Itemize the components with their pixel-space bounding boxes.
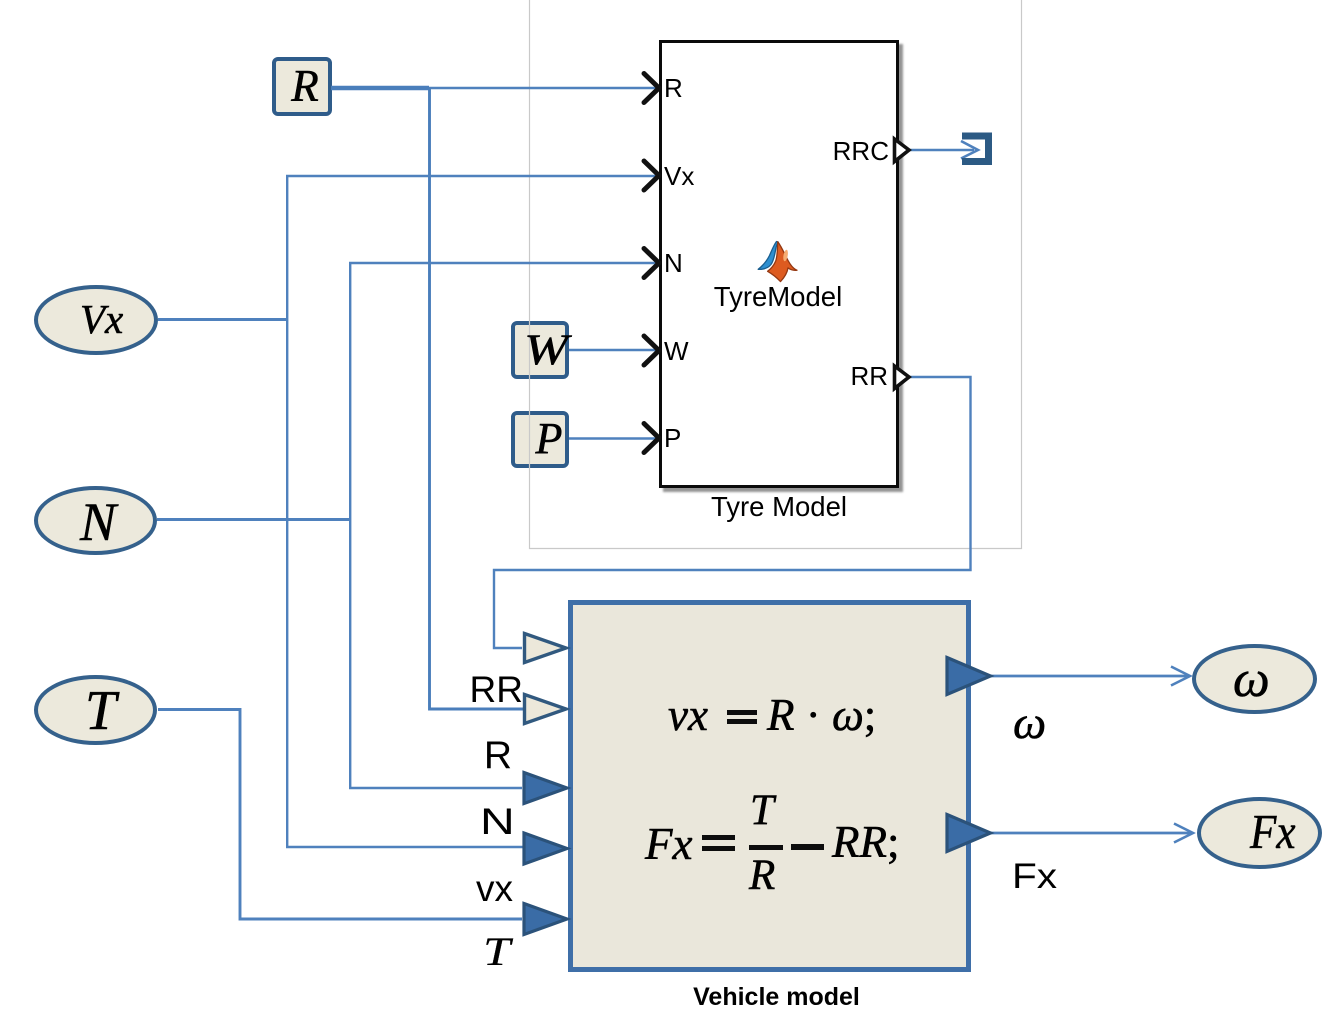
Tyre port label RRC xyxy=(833,138,889,164)
Tyre port label Vx xyxy=(664,163,694,189)
Tyre input chevron R xyxy=(644,74,659,103)
terminator block xyxy=(962,136,989,162)
Tyre input chevron N xyxy=(644,249,659,278)
wire N branch up to Tyre N input xyxy=(350,263,657,520)
constant block P xyxy=(511,411,569,468)
Tyre port label W xyxy=(664,338,689,364)
Vehicle input port 3 N (filled) xyxy=(524,773,567,804)
wire T ellipse to Vehicle T port xyxy=(158,710,522,920)
constant P letter xyxy=(520,417,578,461)
subsystem bounding box (faint) xyxy=(530,0,1022,549)
Tyre port label RR xyxy=(850,363,888,389)
Vehicle port label R xyxy=(484,736,512,775)
equation Fx = T/R - RR : Fx term xyxy=(645,822,692,867)
Tyre input chevron P xyxy=(644,424,659,453)
equation fraction bar xyxy=(749,845,783,850)
Tyre output port RRC xyxy=(895,139,910,162)
wire N ellipse to branch xyxy=(157,518,349,521)
TyreModel name xyxy=(658,283,898,311)
outport ellipse Fx xyxy=(1197,797,1322,869)
constant block R xyxy=(272,57,332,116)
wire R constant to junction (thick) xyxy=(331,86,429,90)
inport ellipse N xyxy=(34,486,157,555)
constant W letter xyxy=(511,329,582,372)
outport omega letter xyxy=(1233,654,1270,706)
Vehicle input port 4 vx (filled) xyxy=(524,833,567,864)
equation 1 R omega term xyxy=(767,693,876,738)
wire Vx ellipse to branch xyxy=(158,318,286,321)
Vehicle input port 5 T (filled) xyxy=(524,904,567,935)
arrowhead RRC wire xyxy=(961,141,978,159)
wire R junction down to Vehicle R port xyxy=(430,88,524,709)
inport N letter xyxy=(80,495,116,549)
wire Tyre RRC output to terminator xyxy=(909,149,974,151)
equation vx = R * omega xyxy=(668,693,708,738)
arrowhead Fx wire xyxy=(1174,824,1193,843)
inport ellipse T xyxy=(34,675,157,745)
equation minus sign xyxy=(791,844,824,850)
Tyre Model subsystem block xyxy=(659,40,899,488)
Tyre port label R xyxy=(664,75,683,101)
Tyre input chevron W xyxy=(644,336,659,365)
wire junction to Tyre R input xyxy=(429,87,657,89)
inport ellipse Vx xyxy=(34,285,158,355)
Vehicle port label Fx xyxy=(1012,859,1057,894)
wire Vx branch down to Vehicle vx port xyxy=(287,320,523,848)
wire Vx branch up to Tyre Vx input xyxy=(287,176,657,320)
wire Vehicle omega output to omega ellipse xyxy=(991,675,1188,678)
Tyre output port RR xyxy=(895,366,910,389)
Vehicle input port 2 R (hollow) xyxy=(525,695,567,724)
Vehicle output port omega (filled) xyxy=(947,658,991,695)
equation 1 equals sign xyxy=(727,710,757,715)
constant R letter xyxy=(275,64,335,109)
inport T letter xyxy=(85,683,116,739)
Vehicle model block xyxy=(568,600,971,972)
wire Vehicle Fx output to Fx ellipse xyxy=(991,832,1191,835)
Vehicle port label omega xyxy=(1013,700,1046,747)
Vehicle port label vx xyxy=(476,870,513,907)
constant block W xyxy=(511,321,569,379)
wire P block to Tyre P input xyxy=(569,437,657,439)
Tyre Model caption xyxy=(659,493,899,521)
Vehicle port label N xyxy=(480,803,515,840)
Vehicle input port 1 RR (hollow) xyxy=(525,634,567,663)
Vehicle output port Fx (filled) xyxy=(947,815,991,852)
wire W block to Tyre W input xyxy=(569,349,657,351)
outport Fx letter xyxy=(1250,807,1295,856)
wire N branch down to Vehicle N port xyxy=(350,520,522,789)
wire Tyre RR output feedback to Vehicle RR port xyxy=(494,377,971,648)
equation equals sign xyxy=(702,835,735,840)
Tyre port label P xyxy=(664,425,681,451)
Vehicle model caption xyxy=(568,985,985,1010)
equation RR term xyxy=(832,820,900,865)
Tyre port label N xyxy=(664,250,683,276)
Vehicle port label T xyxy=(483,932,510,972)
outport ellipse omega xyxy=(1192,644,1317,714)
arrowhead omega wire xyxy=(1171,667,1190,686)
equation fraction numerator T xyxy=(750,789,774,832)
equation fraction denominator R xyxy=(749,854,775,897)
Vehicle port label RR xyxy=(470,671,523,708)
MATLAB logo xyxy=(758,242,797,282)
Tyre input chevron Vx xyxy=(644,161,659,190)
inport Vx letter xyxy=(80,299,123,340)
